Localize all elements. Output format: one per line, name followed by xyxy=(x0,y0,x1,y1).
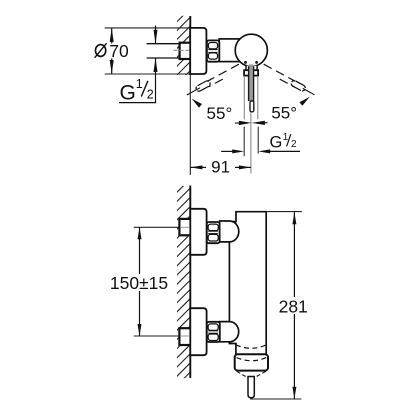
G1/2 dimension (top view, at pipe) xyxy=(155,26,157,44)
bottom escutcheon (bottom view) xyxy=(190,308,206,355)
lever collar xyxy=(244,70,258,75)
supply stubs xyxy=(179,219,191,235)
Ø70 text (diameter symbol drawn manually) xyxy=(95,45,105,57)
G1/2 dimension arrows (lower) xyxy=(221,150,233,152)
wall line (top view) xyxy=(189,16,191,75)
svg-text:G: G xyxy=(270,134,283,152)
lever neck xyxy=(246,66,257,71)
150 extension lines xyxy=(134,226,180,228)
svg-text:281: 281 xyxy=(279,296,308,316)
swing double arrow xyxy=(235,122,240,124)
G1/2 extension lines (below lever) xyxy=(243,127,245,157)
svg-text:70: 70 xyxy=(109,41,129,61)
281 dimension xyxy=(293,212,295,297)
faucet body (top view) xyxy=(219,39,242,62)
dashed lever rotated right xyxy=(264,64,315,106)
cartridge cap circle xyxy=(235,34,267,66)
bottom nut (bottom view) xyxy=(207,322,220,342)
Ø70 dimension line + arrows xyxy=(111,28,113,44)
svg-text:55°: 55° xyxy=(271,104,297,123)
svg-text:2: 2 xyxy=(291,139,297,150)
wall line (bottom view) xyxy=(189,186,191,379)
union nut (top view) xyxy=(207,40,219,61)
top union bulge xyxy=(220,221,239,242)
vertical centerline (gray) xyxy=(250,112,252,174)
pipe dashed centerline xyxy=(174,49,189,51)
Ø70 bottom extension line xyxy=(105,73,191,75)
lever shaft xyxy=(249,64,254,101)
hose coupling nut xyxy=(235,354,268,370)
bottom union bulge xyxy=(220,322,239,342)
top nut (bottom view) xyxy=(207,222,220,243)
faucet body (bottom view) xyxy=(229,212,266,355)
svg-text:150±15: 150±15 xyxy=(110,273,168,293)
escutcheon (top view) xyxy=(190,28,206,74)
svg-text:91: 91 xyxy=(211,158,230,177)
150±15 dimension xyxy=(139,227,141,274)
hidden thread dashed arc (in body above hose nut) xyxy=(236,345,266,349)
91 dimension xyxy=(190,166,206,168)
svg-text:2: 2 xyxy=(147,87,154,101)
dashed cone below nut xyxy=(237,371,246,376)
wall socket stub (top view) xyxy=(180,43,191,59)
dashed lever rotated left xyxy=(187,64,239,107)
outlet nipple xyxy=(248,377,254,398)
svg-text:55°: 55° xyxy=(207,104,233,123)
wall extension line down xyxy=(189,75,191,175)
Ø70 top extension line xyxy=(105,27,191,29)
top escutcheon (bottom view) xyxy=(190,209,206,255)
svg-text:1: 1 xyxy=(136,77,143,91)
wall hatching (top view) xyxy=(170,3,196,91)
wall hatching (bottom view) xyxy=(170,173,196,392)
281 extension lines xyxy=(266,211,302,213)
supply pipe (top view) xyxy=(147,43,180,45)
svg-text:G: G xyxy=(120,81,136,104)
lever paddle side lines xyxy=(243,76,245,120)
